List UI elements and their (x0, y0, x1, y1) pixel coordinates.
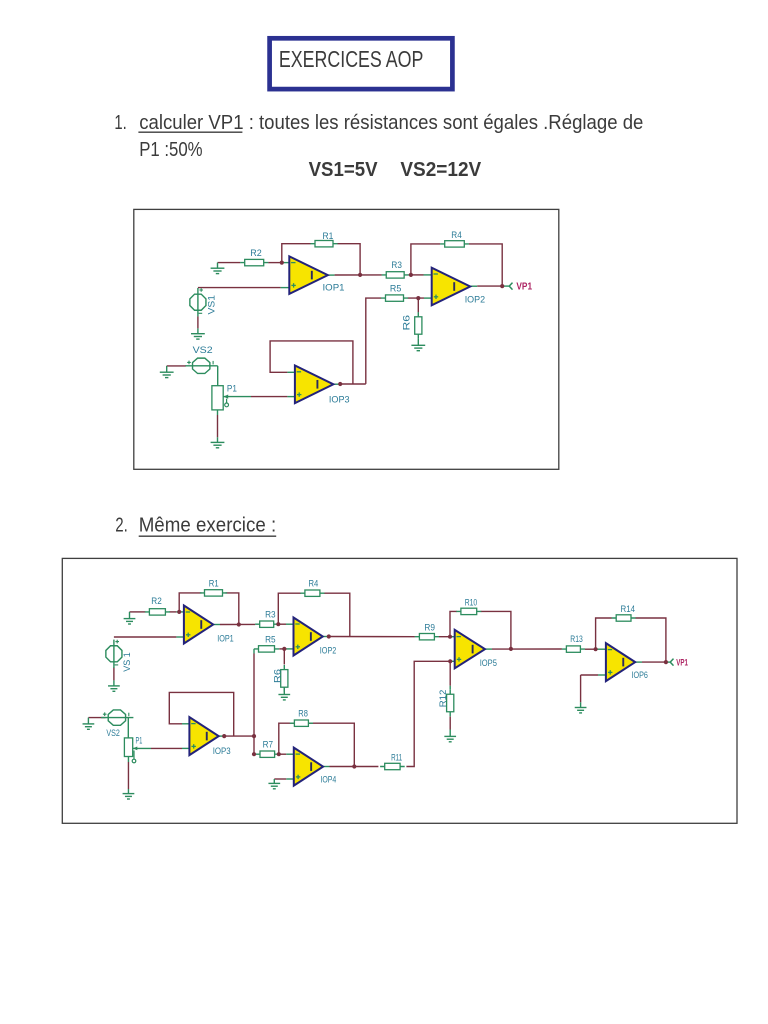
resistor R6 (415, 312, 422, 339)
circuit 2 frame (62, 558, 737, 823)
pin IOP4 inverting input (286, 753, 294, 755)
pin IOP2 output (322, 636, 329, 638)
pin IOP2 inverting input (424, 274, 432, 276)
ground below R6 (411, 345, 425, 350)
ground below R6 (278, 695, 290, 700)
pin IOP1 output (328, 274, 335, 276)
svg-text:R6: R6 (272, 669, 282, 683)
svg-text:R8: R8 (298, 709, 308, 719)
ground stub VS2 (166, 366, 168, 372)
svg-text:R5: R5 (390, 283, 401, 293)
svg-text:R1: R1 (209, 579, 219, 589)
wire R11 up to IOP5 (406, 661, 450, 766)
wire node to IOP2 (284, 648, 286, 650)
pin IOP6 output (635, 661, 642, 663)
wire IOP3 output (224, 735, 254, 737)
svg-text:R6: R6 (401, 315, 411, 331)
wire P1 wiper (133, 747, 151, 749)
ground below P1 (123, 794, 135, 799)
svg-text:P1: P1 (227, 384, 237, 394)
svg-text:IOP1: IOP1 (323, 283, 345, 293)
ground below IOP6 input (575, 708, 587, 713)
wire VS1 to IOP1 (114, 636, 176, 638)
resistor R8 (290, 720, 313, 726)
voltage source VS1 (106, 640, 122, 668)
node IOP4 output junction (352, 764, 356, 768)
wire node up to R8 (279, 723, 295, 754)
svg-text:VS1: VS1 (207, 295, 217, 315)
svg-text:R13: R13 (570, 634, 583, 644)
svg-text:R9: R9 (424, 623, 435, 633)
ground below VS1 (191, 334, 205, 339)
pin IOP2 noninverting input (287, 648, 294, 650)
node output IOP1 junction (358, 273, 362, 277)
resistor R2 (145, 609, 170, 615)
op-amp IOP3 (295, 366, 334, 404)
ground left of VS2 (83, 724, 95, 729)
pin IOP3 inverting input (287, 371, 295, 373)
pin IOP6 noninverting input (598, 674, 606, 676)
svg-text:VS1=5V: VS1=5V (309, 159, 379, 181)
resistor R14 (612, 615, 636, 621)
wire R8 to output node (308, 723, 354, 766)
svg-text:IOP2: IOP2 (320, 646, 337, 656)
wire VS2 to P1 (127, 718, 129, 738)
voltage source VS2 (101, 710, 133, 725)
wire R4 to output node (469, 244, 502, 286)
svg-text:R5: R5 (265, 634, 276, 644)
svg-text:R3: R3 (391, 260, 402, 270)
wire node up to R4 (278, 593, 301, 624)
wire R9 to IOP5 (439, 636, 450, 638)
pin P1 bottom (127, 757, 129, 763)
ground below R12 (444, 736, 456, 741)
wire node C down to R6 (417, 298, 419, 312)
svg-text:R10: R10 (465, 598, 478, 608)
wire IOP1 output to R3 (220, 623, 255, 625)
svg-text:R4: R4 (451, 230, 462, 240)
node IOP6 inverting junction (594, 647, 598, 651)
svg-text:VS 1: VS 1 (122, 652, 132, 672)
svg-text:R1: R1 (323, 231, 334, 241)
pin VP1 terminal (666, 661, 670, 663)
ground below IOP4 input (268, 783, 280, 788)
wire R10 to output node (481, 611, 511, 649)
pin IOP1 noninverting input (176, 636, 184, 638)
wire R5 down to IOP3 output (253, 654, 255, 737)
wire R1 to output node (337, 244, 360, 275)
node IOP6 output junction (664, 660, 668, 664)
wire P1 to ground (127, 762, 129, 789)
pin R5 corner (253, 649, 255, 654)
svg-text:2.: 2. (115, 515, 128, 537)
node C junction (416, 296, 420, 300)
ground stub R12 (449, 730, 451, 737)
wire node A up to R1 (282, 244, 311, 263)
pin IOP4 output (323, 766, 330, 768)
svg-text:R12: R12 (438, 690, 448, 708)
wire node B up to R4 (411, 244, 440, 275)
pin IOP2 output (470, 285, 477, 287)
wire ground to IOP6 (581, 674, 598, 676)
resistor R10 (456, 608, 481, 614)
pin IOP3 noninverting input (287, 396, 295, 398)
wire IOP2 output to R9 (329, 636, 415, 638)
node IOP1 output junction (237, 622, 241, 626)
output terminal VP1 (670, 659, 673, 666)
svg-text:R4: R4 (309, 579, 319, 589)
ground stub R6 (417, 339, 419, 346)
potentiometer P1 (124, 738, 137, 763)
pin VP1 terminal (502, 285, 509, 287)
ground stub VS1 (113, 680, 115, 686)
wire ground to VS2 (88, 717, 105, 719)
node B junction (409, 273, 413, 277)
wire R3 to IOP2 (278, 623, 286, 625)
pin IOP2 noninverting input (424, 297, 432, 299)
ground stub VS2 (87, 718, 89, 724)
pin IOP5 output (485, 648, 492, 650)
node IOP5 inverting junction (448, 635, 452, 639)
wire ground to VS2 (167, 365, 186, 367)
wire VS1 to ground (197, 316, 199, 328)
resistor R4 (300, 590, 324, 596)
ground below VS1 (108, 686, 120, 691)
voltage source VS2 (185, 358, 217, 373)
ground stub P1 (127, 789, 129, 794)
wire IOP5 output to R13 (492, 648, 562, 650)
svg-text:IOP5: IOP5 (480, 658, 497, 668)
node R7 corner junction (252, 752, 256, 756)
node IOP1 inverting junction (177, 610, 181, 614)
op-amp IOP5 (455, 630, 485, 669)
pin IOP1 output (213, 624, 220, 626)
wire node up to R10 (450, 611, 457, 636)
wire P1 to ground (217, 415, 219, 437)
wire VS1 to ground (113, 667, 115, 680)
wire IOP3 feedback loop (169, 692, 233, 736)
svg-text:IOP3: IOP3 (329, 395, 350, 405)
wire IOP6 output (642, 661, 666, 663)
svg-text:VS2: VS2 (106, 728, 120, 738)
node R5 R6 junction (282, 647, 286, 651)
svg-text:VS2: VS2 (193, 345, 213, 355)
svg-text:IOP6: IOP6 (632, 670, 648, 680)
pin IOP6 inverting input (598, 648, 606, 650)
svg-text:IOP1: IOP1 (217, 633, 234, 643)
svg-text:R11: R11 (391, 753, 402, 763)
pin IOP2 inverting input (286, 623, 294, 625)
wire down to R7 (253, 736, 255, 754)
wire node up to R14 (596, 618, 612, 649)
op-amp IOP2 (294, 618, 323, 656)
node IOP4 inverting junction (277, 752, 281, 756)
pin IOP3 noninverting input (182, 747, 189, 749)
wire R4 to output node (324, 593, 350, 636)
svg-text:P1: P1 (136, 736, 143, 746)
wire wiper to IOP3 (151, 747, 182, 749)
wire ground to IOP4 (274, 778, 286, 780)
wire R3 to IOP2 (409, 274, 424, 276)
svg-text:R7: R7 (263, 740, 274, 750)
pin IOP3 output (333, 383, 339, 385)
ground stub IOP6 (580, 702, 582, 707)
wire R13 to IOP6 (585, 648, 598, 650)
svg-text:Même exercice :: Même exercice : (139, 515, 277, 537)
resistor R4 (440, 241, 469, 247)
pin P1 bottom (217, 410, 219, 415)
title box (270, 38, 453, 89)
pin IOP4 noninverting input (286, 778, 294, 780)
resistor R13 (562, 646, 585, 652)
wire R5 to IOP2 (408, 297, 424, 299)
op-amp IOP1 (289, 256, 328, 294)
svg-text:VP1: VP1 (676, 658, 688, 669)
resistor R5 (381, 295, 408, 301)
wire R5 to node (279, 648, 284, 650)
resistor R2 (240, 259, 268, 265)
wire R2 to node A (268, 262, 280, 264)
node IOP5 output junction (509, 647, 513, 651)
node output IOP2 junction (500, 284, 504, 288)
underline calculer VP1 (138, 131, 242, 133)
node IOP3 output junction (338, 382, 342, 386)
svg-text:R14: R14 (621, 604, 636, 614)
node IOP5 noninverting junction (448, 659, 452, 663)
wire VS1 to IOP1 noninverting input (198, 287, 281, 289)
resistor R5 (254, 646, 279, 652)
op-amp IOP1 (184, 606, 213, 644)
wire R7 to IOP4 (279, 753, 286, 755)
node R5 branch junction (252, 734, 256, 738)
wire node up to R1 (179, 593, 201, 612)
wire R1 to output node (226, 593, 239, 625)
op-amp IOP2 (432, 268, 471, 306)
ground stub IOP4 (273, 779, 275, 783)
resistor R6 (281, 665, 288, 692)
ground stub R2 (217, 263, 219, 269)
ground below R2 wire (211, 268, 225, 273)
op-amp IOP4 (294, 748, 323, 786)
wire node down to R6 (283, 649, 285, 665)
node IOP3 output junction (222, 734, 226, 738)
svg-text:R2: R2 (250, 248, 261, 258)
ground left of VS2 (160, 372, 174, 377)
wire ground to R2 (218, 262, 241, 264)
node A junction (280, 261, 284, 265)
circuit 1 frame (134, 209, 559, 469)
wire ground to R2 (130, 611, 146, 613)
svg-text:IOP4: IOP4 (320, 774, 336, 784)
potentiometer P1 (212, 386, 229, 410)
wire IOP6 ground vertical (580, 675, 582, 702)
svg-text:EXERCICES AOP: EXERCICES AOP (279, 46, 424, 72)
pin R12 top (449, 686, 451, 690)
wire IOP1 output to R3 (335, 274, 382, 276)
wire R12 to ground (449, 717, 451, 730)
svg-text:R2: R2 (151, 596, 162, 606)
resistor R9 (415, 634, 439, 640)
resistor R3 (382, 272, 409, 278)
resistor R7 (255, 751, 279, 757)
wire IOP3 feedback loop (270, 341, 353, 384)
node IOP2 output junction (327, 634, 331, 638)
svg-text:1.: 1. (114, 112, 126, 134)
ground stub VS1 (197, 328, 199, 333)
wire IOP3 output (339, 383, 366, 385)
pin IOP1 inverting input (176, 611, 184, 613)
pin IOP3 inverting input (182, 723, 189, 725)
svg-text:R3: R3 (265, 610, 276, 620)
output terminal VP1 (509, 283, 512, 290)
node IOP2 inverting junction (276, 622, 280, 626)
op-amp IOP3 (189, 717, 218, 755)
pin IOP5 noninverting input (450, 660, 455, 662)
wire IOP2 output (477, 285, 502, 287)
op-amp IOP6 (606, 643, 635, 681)
underline Même exercice (139, 535, 277, 537)
resistor R12 (447, 690, 454, 717)
wire P1 wiper (223, 396, 251, 398)
wire IOP3 output up to R5 (366, 298, 381, 384)
pin IOP3 output (219, 735, 225, 737)
wire R2 to IOP1 (169, 611, 176, 613)
svg-text:P1 :50%: P1 :50% (139, 139, 203, 161)
svg-text:VS2=12V: VS2=12V (400, 159, 481, 181)
ground stub R2 (129, 612, 131, 619)
wire node down to R12 (449, 661, 451, 686)
pin IOP5 inverting input (450, 636, 455, 638)
resistor R1 (200, 590, 227, 596)
resistor R3 (255, 621, 278, 627)
pin IOP1 inverting input (281, 262, 290, 264)
pin IOP1 noninverting input (281, 287, 290, 289)
wire R14 to output node (636, 618, 666, 662)
svg-text:IOP2: IOP2 (465, 295, 485, 305)
wire IOP4 output to R11 (330, 766, 379, 768)
voltage source VS1 (190, 288, 206, 316)
ground stub P1 (217, 437, 219, 442)
ground below R2 wire (124, 619, 136, 624)
ground below P1 (211, 442, 225, 447)
svg-text:VP1: VP1 (516, 281, 532, 293)
svg-text:IOP3: IOP3 (213, 746, 231, 756)
resistor R1 (310, 241, 337, 247)
wire VS2 to P1 (217, 366, 219, 386)
resistor R11 (380, 763, 405, 769)
wire wiper to IOP3 (251, 396, 287, 398)
ground stub R6 (283, 687, 285, 694)
svg-text:calculer VP1 : toutes les rési: calculer VP1 : toutes les résistances so… (139, 112, 643, 134)
